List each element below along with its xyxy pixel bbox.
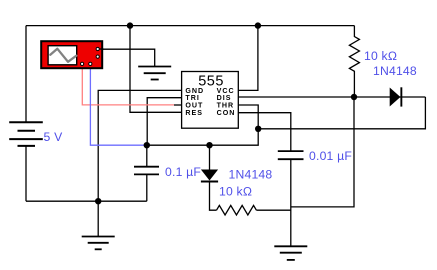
wire DIS node down to ground node (291, 97, 354, 207)
wire GND pin to bottom junction (98, 90, 181, 201)
wire OUT pin stub (174, 104, 182, 106)
oscilloscope XSC1 (41, 41, 103, 68)
wire THR pin (238, 105, 258, 129)
capacitor C1 0.1uF (134, 167, 159, 175)
wire dot2 stem to diode D2 (209, 145, 211, 169)
wire THR junction down-left (210, 129, 259, 145)
wire red scope A to OUT (82, 64, 174, 105)
capacitor C2 0.01uF (278, 151, 304, 159)
resistor R1 10k vertical (349, 26, 359, 97)
wire DIS pin row (238, 96, 354, 98)
wire bottom rail to cap (26, 200, 147, 202)
diode D1 1N4148 (390, 87, 403, 106)
wire top rail (26, 25, 354, 27)
wire TRI pin (147, 98, 181, 146)
wire R2 to ground node (256, 209, 290, 211)
wire right loop (258, 97, 425, 129)
ground G2 bottom left (82, 237, 115, 250)
svg-text:10 kΩ: 10 kΩ (364, 49, 397, 63)
diode D2 1N4148 vertical (201, 170, 218, 183)
wire CON pin to cap C2 (238, 113, 290, 151)
svg-text:1N4148: 1N4148 (229, 167, 273, 181)
node TRI-C1 (144, 142, 150, 148)
battery V1 5V (9, 122, 43, 146)
wire cap C2 to ground G3 (290, 159, 292, 246)
wire cap C1 top stem (146, 145, 148, 167)
node junction dots (95, 22, 357, 204)
svg-text:0.1 µF: 0.1 µF (165, 165, 201, 179)
wire scope ground terminal (101, 49, 155, 66)
ground G3 bottom right (274, 246, 307, 260)
node top-VCC (255, 22, 261, 28)
svg-text:CON: CON (217, 109, 236, 117)
wire battery top lead (25, 26, 27, 123)
svg-text:5 V: 5 V (44, 130, 64, 144)
op-amp U1 555 timer box (182, 72, 239, 129)
wire cap C1 bottom stem (146, 174, 148, 201)
resistor R2 10k horizontal (217, 205, 257, 215)
svg-text:0.01 µF: 0.01 µF (309, 149, 352, 163)
svg-text:1N4148: 1N4148 (373, 64, 417, 78)
svg-text:RES: RES (185, 109, 203, 117)
wire blue scope B to TRI node (90, 64, 146, 145)
wire junction to ground G2 (97, 201, 99, 236)
wire diode D1 row (354, 96, 425, 98)
wire VCC pin to top rail (238, 26, 258, 91)
node top-RES (127, 22, 133, 28)
wire RES pin to top rail (130, 26, 182, 113)
wire battery bottom lead (25, 146, 27, 201)
node battery-GND (95, 198, 101, 204)
wire TRI node run (147, 144, 210, 146)
node D2 anode (206, 142, 212, 148)
svg-text:10 kΩ: 10 kΩ (219, 185, 252, 199)
wire diode D2 to resistor R2 (210, 183, 217, 211)
ground G1 scope (138, 67, 171, 80)
node THR (255, 126, 261, 132)
node DIS-R1 (351, 94, 357, 100)
